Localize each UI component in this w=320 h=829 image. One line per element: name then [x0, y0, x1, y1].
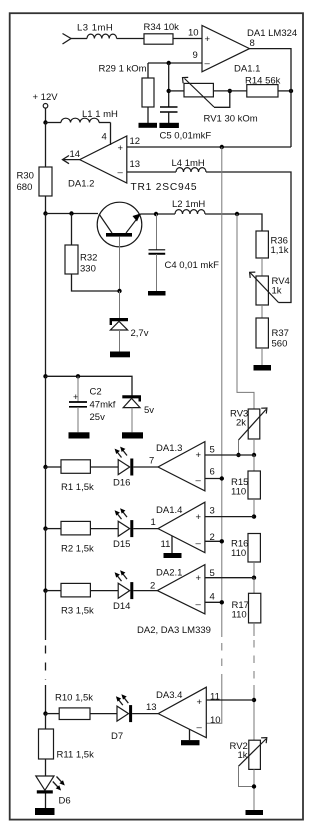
ground under C4 — [148, 291, 166, 296]
resistor R29 — [142, 63, 154, 123]
wire pin9 of DA1.1 — [148, 62, 202, 64]
svg-text:R3 1,5k: R3 1,5k — [61, 606, 94, 617]
wire R37 to ground — [261, 348, 263, 365]
wire RV1 wiper loop — [214, 91, 230, 107]
svg-text:560: 560 — [272, 339, 288, 350]
svg-text:D14: D14 — [113, 601, 130, 612]
node pin4 bus — [220, 600, 224, 604]
ground under C2 — [69, 432, 90, 438]
svg-text:+: + — [196, 573, 202, 584]
svg-text:D16: D16 — [113, 478, 130, 489]
wire pin3 row2 — [205, 516, 254, 518]
resistor R1 — [46, 460, 119, 474]
wire RV4 to R37 — [261, 305, 263, 318]
inductor L2 — [175, 210, 205, 214]
node row1 left — [43, 465, 47, 469]
wire RV2 wiper loop — [239, 766, 255, 786]
svg-text:R34 10k: R34 10k — [144, 22, 180, 33]
capacitor C2 — [69, 376, 87, 432]
node L2/bus junction — [235, 212, 239, 216]
wire emitter to L2 — [141, 213, 176, 215]
node RV2 tie — [252, 784, 256, 788]
svg-text:+: + — [205, 34, 211, 45]
svg-text:+: + — [196, 512, 202, 523]
svg-text:25v: 25v — [90, 412, 106, 423]
wire L2 node down to RV3 — [237, 214, 254, 409]
svg-text:C4 0,01 mkF: C4 0,01 mkF — [165, 260, 220, 271]
svg-text:14: 14 — [70, 149, 81, 160]
svg-text:10: 10 — [188, 28, 199, 39]
svg-text:R2 1,5k: R2 1,5k — [61, 544, 94, 555]
svg-text:5: 5 — [210, 445, 215, 456]
svg-text:R11 1,5k: R11 1,5k — [57, 750, 95, 761]
wire DA3.4 ground stub — [189, 730, 191, 741]
svg-text:L3 1mH: L3 1mH — [77, 23, 113, 34]
inductor L1 — [46, 118, 111, 122]
svg-text:4: 4 — [210, 592, 215, 603]
wire ladder dashed — [253, 640, 255, 685]
terminal +12V — [43, 104, 48, 109]
wire minus bus x222 upper — [221, 147, 223, 637]
svg-text:9: 9 — [193, 50, 198, 61]
wire RV1 to R14 — [213, 90, 246, 92]
ground under zener 5v — [122, 432, 143, 438]
svg-text:13: 13 — [130, 159, 141, 170]
svg-text:1k: 1k — [272, 286, 282, 297]
potentiometer RV2 — [239, 738, 267, 770]
wire minus bus x222 dashed — [221, 643, 223, 681]
node +12V junction — [43, 120, 47, 124]
wire +12V down — [45, 108, 47, 122]
svg-text:+: + — [118, 143, 124, 154]
wire left bus to row1 — [45, 376, 47, 467]
node pin6 bus — [220, 476, 224, 480]
svg-text:–: – — [118, 167, 124, 178]
svg-text:–: – — [205, 58, 211, 69]
svg-text:7: 7 — [149, 456, 154, 467]
node RV3 wiper on row1 — [236, 453, 240, 457]
resistor R10 — [46, 708, 118, 720]
LED D14 — [115, 570, 158, 599]
svg-text:TR1 2SC945: TR1 2SC945 — [131, 182, 198, 193]
wire pin13 L4 row — [127, 171, 176, 173]
resistor R16 — [248, 534, 260, 578]
ground under RV2 — [246, 810, 264, 815]
svg-text:+ 12V: + 12V — [33, 92, 59, 103]
wire pin4 row3 — [205, 601, 222, 603]
potentiometer RV1 — [183, 77, 215, 107]
wire pin14 output arrow — [63, 156, 80, 164]
node C4 tap — [154, 212, 158, 216]
node pin9/R29/C5 junction — [167, 61, 171, 65]
inductor L4 — [176, 168, 206, 172]
svg-text:47mkf: 47mkf — [90, 400, 116, 411]
node R14/feedback junction — [289, 89, 293, 93]
wire pin2 row2 — [205, 540, 222, 542]
svg-text:2: 2 — [150, 581, 155, 592]
svg-text:RV1 30 kOm: RV1 30 kOm — [204, 114, 258, 125]
node RV1 left junction — [167, 89, 171, 93]
svg-text:5v: 5v — [144, 405, 154, 416]
svg-text:DA2.1: DA2.1 — [156, 568, 182, 579]
wire left bus upper — [45, 214, 47, 377]
node collector row left — [43, 211, 47, 215]
svg-text:R10 1,5k: R10 1,5k — [55, 693, 93, 704]
svg-text:1,1k: 1,1k — [271, 245, 289, 256]
node C2 tap — [76, 374, 80, 378]
wire left bus to dashes — [45, 591, 47, 640]
resistor R2 — [46, 521, 119, 535]
svg-text:R29 1 kOm: R29 1 kOm — [99, 64, 147, 75]
svg-text:11: 11 — [161, 539, 171, 550]
svg-text:3: 3 — [210, 506, 215, 517]
resistor R3 — [46, 583, 119, 597]
svg-text:2,7v: 2,7v — [131, 328, 149, 339]
potentiometer RV4 — [250, 272, 279, 305]
svg-text:110: 110 — [231, 548, 246, 559]
svg-text:DA1.4: DA1.4 — [156, 505, 182, 516]
node C2 bus left — [43, 374, 47, 378]
wire input to L3 — [71, 38, 87, 40]
wire L4 to RV4 wiper bus — [206, 172, 291, 303]
ground under R37 — [254, 365, 272, 371]
zener diode 2.7v — [110, 291, 128, 352]
resistor R32 — [65, 214, 120, 292]
node bus tap on pin12 wire — [220, 145, 224, 149]
transistor TR1 — [97, 202, 142, 247]
wire L2 to R36 corner — [205, 214, 262, 231]
svg-text:+: + — [196, 450, 202, 461]
svg-text:680: 680 — [17, 182, 33, 193]
wire ladder to RV2 — [253, 685, 255, 740]
node base junction — [117, 289, 121, 293]
svg-text:6: 6 — [210, 467, 215, 478]
node ladder row4 — [252, 698, 256, 702]
svg-text:330: 330 — [80, 264, 96, 275]
svg-text:DA2, DA3 LM339: DA2, DA3 LM339 — [137, 625, 211, 636]
svg-text:12: 12 — [130, 136, 141, 147]
wire C2 bus — [46, 376, 133, 395]
svg-text:8: 8 — [250, 38, 255, 49]
svg-text:110: 110 — [232, 610, 247, 621]
svg-text:13: 13 — [146, 702, 157, 713]
node row4 left — [43, 711, 47, 715]
svg-text:1: 1 — [151, 517, 156, 528]
node ladder row2 — [252, 514, 256, 518]
resistor R34 — [144, 34, 173, 44]
ground under DA3.4 — [181, 740, 200, 745]
capacitor C5 — [160, 107, 178, 123]
wire R34 to DA1.1 — [173, 38, 202, 40]
wire to TR1 collector — [46, 213, 99, 215]
ground under R29 — [139, 123, 158, 128]
svg-text:D15: D15 — [113, 539, 130, 550]
svg-text:DA1.1: DA1.1 — [234, 64, 260, 75]
op-amp DA1.1 — [202, 25, 250, 71]
resistor R14 — [247, 85, 278, 97]
ground under DA1.4 — [164, 553, 182, 558]
svg-text:–: – — [197, 722, 203, 733]
wire R14 to feedback bus — [278, 90, 291, 92]
wire pin6 row1 — [205, 478, 222, 480]
svg-text:–: – — [196, 599, 202, 610]
wire DA1.1 output feedback — [250, 49, 292, 147]
LED D16 — [115, 447, 158, 476]
wire pin5 row3 — [205, 577, 254, 579]
wire L3 to R34 — [117, 38, 144, 40]
wire RV2 bottom — [253, 769, 255, 810]
zener diode 5v — [122, 395, 141, 432]
wire left bus to row3 — [45, 529, 47, 591]
wire pin4 stub of DA1.2 — [110, 123, 112, 146]
wire left bus to row4 — [45, 685, 47, 714]
resistor R37 — [256, 318, 268, 348]
svg-text:DA3.4: DA3.4 — [156, 690, 182, 701]
potentiometer RV3 — [239, 408, 267, 440]
wire left bus to row2 — [45, 467, 47, 529]
wire minus bus x222 lower — [206, 681, 222, 723]
svg-text:DA1.2: DA1.2 — [68, 179, 94, 190]
wire junction to RV1 — [169, 90, 184, 92]
svg-text:110: 110 — [231, 487, 246, 498]
resistor R11 — [39, 714, 54, 776]
node row2 left — [43, 526, 47, 530]
svg-text:10: 10 — [210, 715, 221, 726]
wire pin11 ground stub — [171, 536, 173, 553]
svg-text:4: 4 — [102, 132, 107, 143]
svg-text:D6: D6 — [59, 796, 71, 807]
svg-text:11: 11 — [210, 692, 220, 703]
ground under C5 — [159, 123, 179, 128]
svg-text:R1 1,5k: R1 1,5k — [61, 482, 94, 493]
op-amp DA1.2 — [80, 136, 127, 183]
input terminal chevron — [63, 34, 72, 45]
node RV1 wiper tie — [228, 89, 232, 93]
svg-text:R32: R32 — [80, 253, 97, 264]
wire C5 branch — [168, 63, 170, 107]
svg-text:L2 1mH: L2 1mH — [172, 199, 205, 210]
resistor R17 — [249, 578, 261, 636]
svg-text:C2: C2 — [90, 387, 102, 398]
op-amp DA1.3 — [158, 442, 205, 491]
capacitor C4 — [149, 214, 166, 291]
LED D7 — [116, 694, 158, 722]
svg-text:2k: 2k — [236, 418, 246, 429]
resistor R15 — [248, 455, 260, 517]
LED D6 — [36, 776, 65, 808]
wire pin12 line to DA1.2 — [127, 146, 291, 148]
LED D15 — [115, 508, 158, 537]
svg-text:+: + — [197, 697, 203, 708]
op-amp DA1.4 — [158, 502, 205, 553]
ground under zener 2.7v — [110, 352, 130, 358]
svg-text:–: – — [196, 475, 202, 486]
op-amp DA3.4 — [158, 687, 206, 738]
wire pin11 row4 — [206, 699, 254, 701]
wire R36 to RV4 — [261, 258, 263, 276]
resistor R30 — [39, 123, 52, 214]
svg-text:–: – — [196, 538, 202, 549]
inductor L3 — [87, 34, 117, 38]
wire left bus dashed — [45, 646, 47, 681]
svg-text:D7: D7 — [111, 731, 123, 742]
node R32 tap — [69, 211, 73, 215]
node pin2 bus — [220, 539, 224, 543]
ground under D6 — [35, 808, 55, 815]
svg-text:R37: R37 — [272, 328, 289, 339]
op-amp DA2.1 — [157, 565, 205, 614]
svg-text:R30: R30 — [17, 171, 34, 182]
node row3 left — [43, 588, 47, 592]
wire RV3 wiper tie — [238, 440, 240, 455]
svg-text:DA1.3: DA1.3 — [156, 443, 182, 454]
node ladder row1 — [252, 453, 256, 457]
node ladder row3 — [252, 576, 256, 580]
svg-text:C5 0,01mkF: C5 0,01mkF — [160, 131, 212, 142]
resistor R36 — [256, 231, 268, 258]
wire TR1 base down — [119, 237, 121, 291]
wire pin5 row1 — [205, 454, 254, 456]
wire RV3 bottom to row1 — [253, 439, 255, 455]
